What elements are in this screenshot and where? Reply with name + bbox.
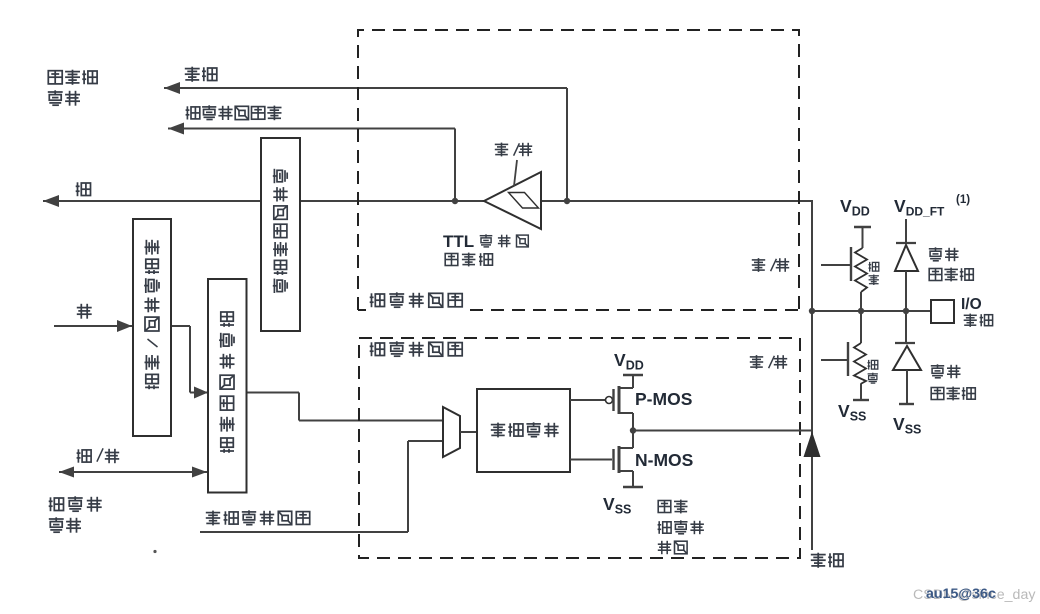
- svg-text:(1): (1): [956, 194, 970, 206]
- svg-text:V: V: [840, 196, 852, 216]
- svg-text:V: V: [893, 414, 905, 434]
- svg-text:SS: SS: [905, 423, 922, 437]
- svg-text:P-MOS: P-MOS: [635, 389, 692, 409]
- svg-text:V: V: [838, 401, 850, 421]
- svg-text:V: V: [614, 350, 626, 370]
- svg-text:SS: SS: [615, 503, 632, 517]
- svg-text:V: V: [894, 196, 906, 216]
- svg-text:N-MOS: N-MOS: [635, 450, 693, 470]
- svg-text:DD: DD: [852, 205, 870, 219]
- svg-text:au15@36c: au15@36c: [926, 586, 996, 602]
- svg-text:TTL: TTL: [443, 232, 474, 251]
- svg-text:DD: DD: [626, 359, 644, 373]
- svg-text:I/O: I/O: [961, 296, 982, 313]
- svg-text:DD_FT: DD_FT: [906, 205, 945, 219]
- svg-text:SS: SS: [850, 410, 867, 424]
- svg-text:V: V: [603, 494, 615, 514]
